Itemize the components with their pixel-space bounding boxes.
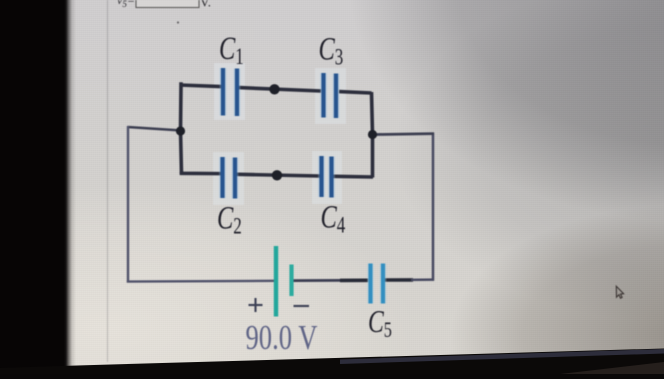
wire right vertical of top branch xyxy=(372,92,373,135)
wire top branch middle segment (C1 to C3) xyxy=(239,88,321,91)
svg-text:90.0 V: 90.0 V xyxy=(246,317,318,356)
svg-text:v5=: v5= xyxy=(117,0,135,9)
dust speck xyxy=(177,21,179,23)
wire top-left corner vertical (top wire corner down to left node) xyxy=(179,84,183,131)
wire right connector (outer loop to right node) xyxy=(372,134,435,135)
battery V 90.0 V : long positive plate xyxy=(274,246,278,317)
battery short negative plate xyxy=(289,265,293,297)
wire left outer vertical xyxy=(127,126,129,283)
capacitor C1 highlight halo xyxy=(214,63,245,120)
capacitor C3 highlight halo xyxy=(315,68,346,124)
svg-text:C3: C3 xyxy=(319,31,344,70)
wire bottom left segment (to battery) xyxy=(127,280,274,283)
svg-text:C1: C1 xyxy=(219,31,244,70)
capacitor C4 xyxy=(322,156,332,198)
wire C5 right lead xyxy=(385,278,413,282)
input box for v5 xyxy=(136,0,199,8)
capacitor C2 xyxy=(223,157,236,199)
node bottom branch junction (between C2 and C4) xyxy=(272,170,282,180)
svg-text:C5: C5 xyxy=(368,305,392,343)
mouse cursor xyxy=(616,286,623,298)
monitor bezel left band xyxy=(0,0,80,374)
capacitor C3 xyxy=(324,73,337,118)
wire top branch left segment xyxy=(180,85,222,87)
node A (left junction) xyxy=(176,126,185,135)
wire right mid vertical (bottom branch up to right node) xyxy=(371,134,375,178)
wire C5 thick lead left xyxy=(340,278,368,282)
capacitor C2 highlight halo xyxy=(213,152,244,205)
wire battery to C5 segment xyxy=(293,279,368,282)
capacitor C5 xyxy=(371,264,384,304)
node B (right junction) xyxy=(368,130,377,139)
svg-text:V.: V. xyxy=(200,0,211,9)
wire left connector (node to outer loop) xyxy=(128,127,182,131)
wire right outer vertical xyxy=(432,133,435,281)
wire C5 to right corner xyxy=(411,278,434,281)
wire left mid vertical (left node down to bottom branch) xyxy=(181,130,182,175)
svg-text:C2: C2 xyxy=(217,200,242,239)
capacitor C1 xyxy=(223,68,237,116)
capacitor C4 highlight halo xyxy=(312,151,342,204)
wire bottom branch right segment xyxy=(334,175,374,179)
battery polarity plus sign xyxy=(249,298,263,312)
battery polarity minus sign xyxy=(294,305,310,307)
node top branch junction (between C1 and C3) xyxy=(269,84,279,94)
svg-text:C4: C4 xyxy=(321,199,346,238)
page border faint vertical line xyxy=(107,0,109,362)
wire bottom branch left segment xyxy=(182,171,221,175)
wire bottom branch middle segment (C2 to C4) xyxy=(237,174,320,176)
wire top branch right segment xyxy=(339,92,372,93)
